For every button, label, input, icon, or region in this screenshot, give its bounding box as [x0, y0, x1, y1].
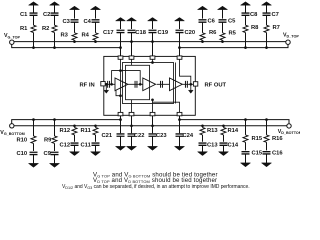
node C18/bus: [130, 40, 133, 43]
wire: [245, 154, 247, 163]
capacitor C13: [199, 143, 207, 145]
ground arrow above C2: [50, 2, 60, 5]
capacitor C3: [71, 20, 79, 22]
resistor R5: [220, 33, 225, 40]
svg-text:C3: C3: [63, 19, 71, 25]
svg-text:R12: R12: [60, 128, 71, 134]
wire: [95, 40, 97, 41]
svg-text:C10: C10: [17, 151, 28, 157]
wire: [95, 146, 97, 152]
wire: [54, 16, 56, 26]
svg-text:C21: C21: [102, 133, 113, 139]
svg-text:C11: C11: [81, 143, 92, 149]
wire pin B3 stub: [152, 100, 154, 113]
ground arrow below C12: [70, 152, 80, 156]
wire C17 down through bus corner to pin 1: [120, 33, 122, 56]
op-amp U1 package outline: [104, 56, 196, 115]
wire outer feedback loop: [123, 63, 174, 104]
wire: [95, 135, 97, 142]
node R9/bus: [53, 118, 56, 121]
capacitor C7: [263, 13, 271, 15]
capacitor C9: [51, 152, 59, 154]
svg-text:R16: R16: [272, 136, 283, 142]
capacitor C6: [199, 20, 207, 22]
wire: [202, 40, 204, 41]
resistor R11: [93, 128, 98, 135]
resistor R16: [264, 135, 269, 142]
wire: [54, 143, 56, 151]
resistor R9: [52, 136, 57, 143]
wire: [223, 146, 225, 152]
svg-text:C4: C4: [84, 19, 92, 25]
capacitor C15: [242, 152, 250, 154]
svg-text:R3: R3: [61, 32, 69, 38]
transistor amp stage 3: [170, 78, 183, 91]
ground arrow above C1: [29, 2, 39, 5]
wire: [223, 126, 225, 128]
wire: [202, 146, 204, 152]
svg-text:C7: C7: [272, 12, 279, 18]
svg-text:C20: C20: [185, 30, 196, 36]
capacitor C20: [176, 30, 184, 32]
ground arrow above C17: [116, 18, 126, 21]
node C21/bus: [119, 118, 122, 121]
wire: [245, 120, 247, 135]
node C20/bus: [178, 46, 181, 49]
resistor R7: [264, 25, 269, 32]
terminal VD_TOP: [286, 40, 290, 44]
wire: [120, 21, 122, 29]
wire pin B4 to stage3 area: [153, 102, 180, 112]
svg-text:VD_BOTTOM: VD_BOTTOM: [278, 129, 300, 135]
wire VG_TOP upper bus A: [14, 41, 286, 43]
wire: [266, 5, 268, 13]
resistor R8: [243, 25, 248, 32]
node C22/bus: [130, 124, 133, 127]
svg-text:C1: C1: [20, 12, 28, 18]
wire: [33, 155, 35, 164]
node R14/bus: [222, 124, 225, 127]
node R7/bus: [265, 46, 268, 49]
pin box top 2: [129, 56, 134, 59]
wire: [95, 126, 97, 128]
wire: [266, 33, 268, 48]
wire: [120, 137, 122, 147]
wire: [74, 22, 76, 32]
wire: [266, 142, 268, 150]
svg-text:R8: R8: [251, 25, 259, 31]
svg-text:C8: C8: [250, 12, 258, 18]
svg-text:C16: C16: [272, 150, 283, 156]
svg-text:C22: C22: [134, 133, 145, 139]
ground arrow above C4: [91, 6, 101, 9]
node R16/bus: [265, 118, 268, 121]
node R1/bus: [32, 46, 35, 49]
resistor R14: [221, 128, 226, 135]
wire: [131, 21, 133, 29]
svg-text:R2: R2: [42, 26, 49, 32]
wire: [95, 22, 97, 32]
svg-text:R11: R11: [81, 128, 92, 134]
svg-text:C12: C12: [60, 143, 71, 149]
pin box top 3: [150, 56, 155, 59]
terminal VG_TOP: [10, 40, 14, 44]
wire pin B1 down to C21: [120, 116, 122, 133]
pin box RF OUT: [193, 82, 197, 86]
resistor R3: [72, 33, 77, 40]
capacitor C4: [92, 20, 100, 22]
wire: [222, 40, 224, 41]
wire: [245, 142, 247, 150]
capacitor C10: [30, 152, 38, 154]
ground arrow below C23: [148, 146, 158, 150]
ground arrow below C15: [241, 163, 251, 167]
wire: [33, 5, 35, 13]
svg-text:C24: C24: [183, 133, 194, 139]
svg-text:RF OUT: RF OUT: [205, 83, 227, 89]
svg-text:RF IN: RF IN: [80, 83, 95, 89]
svg-text:C6: C6: [208, 18, 216, 24]
capacitor C19: [149, 30, 157, 32]
ground arrow below C22: [127, 146, 137, 150]
ground arrow below C16: [262, 163, 272, 167]
wire: [74, 146, 76, 152]
ground arrow below C14: [219, 152, 229, 156]
wire: [74, 40, 76, 41]
wire VG_TOP lower bus B left segment with terminal stub: [12, 44, 120, 47]
capacitor C18: [128, 30, 136, 32]
ground arrow above C5: [218, 6, 228, 9]
svg-text:R5: R5: [229, 30, 237, 36]
capacitor C12: [71, 143, 79, 145]
wire: [54, 33, 56, 48]
ground arrow above C18: [127, 18, 137, 21]
wire C20 down to pin 4: [179, 33, 181, 56]
wire pin B2 stub: [131, 100, 133, 113]
node R6/bus: [201, 40, 204, 43]
pin box bottom 2: [129, 112, 134, 115]
wire stage1 source jog: [116, 91, 121, 96]
wire: [131, 137, 133, 147]
wire VG_BOTTOM inner bus left segment with terminal stub: [12, 120, 120, 124]
wire: [179, 137, 181, 147]
ground arrow input shunt: [105, 84, 107, 90]
svg-text:C18: C18: [135, 30, 146, 36]
pin box bottom 4: [177, 112, 182, 115]
wire: [74, 126, 76, 128]
wire VD_BOTTOM inner bus right segment with terminal stub: [180, 120, 290, 124]
pin box RF IN: [101, 82, 105, 86]
node R2/bus: [53, 46, 56, 49]
node R11/bus: [94, 124, 97, 127]
svg-text:R9: R9: [44, 137, 52, 143]
wire: [202, 9, 204, 18]
node gate bias stage 2: [139, 83, 142, 86]
resistor R12: [72, 128, 77, 135]
wire pin B4 down to C24: [179, 116, 181, 133]
capacitor C17: [117, 30, 125, 32]
wire VD_TOP lower bus B right segment with terminal stub: [180, 44, 289, 47]
capacitor C22: [128, 134, 136, 136]
svg-text:R15: R15: [252, 136, 263, 142]
ground arrow above C20: [175, 18, 185, 21]
resistor R4: [93, 33, 98, 40]
resistor R10: [31, 136, 36, 143]
wire: [33, 33, 35, 48]
wire pin 4 to output node: [180, 59, 191, 84]
capacitor C23: [149, 134, 157, 136]
wire: [152, 137, 154, 147]
svg-text:C5: C5: [228, 19, 236, 25]
node C19/bus: [151, 40, 154, 43]
wire: [33, 143, 35, 151]
wire: [223, 135, 225, 142]
wire: [152, 21, 154, 29]
ground arrow above C19: [148, 18, 158, 21]
wire: [202, 22, 204, 32]
wire: [266, 16, 268, 26]
ground arrow below C11: [91, 152, 101, 156]
capacitor C24: [176, 134, 184, 136]
capacitor C16: [263, 152, 271, 154]
node R8/bus: [244, 46, 247, 49]
node C23/bus: [151, 124, 154, 127]
wire: [245, 5, 247, 13]
pin box bottom 3: [150, 112, 155, 115]
resistor R1: [31, 25, 36, 32]
wire outer loop inner-edge (right): [175, 63, 177, 104]
node R12/bus: [73, 124, 76, 127]
svg-text:R6: R6: [209, 30, 217, 36]
wire: [245, 16, 247, 26]
wire pin B2 down to C22: [131, 116, 133, 133]
wire: [54, 120, 56, 136]
resistor R2: [52, 25, 57, 32]
ground arrow below C13: [198, 152, 208, 156]
pin box top 4: [177, 56, 182, 59]
svg-text:C13: C13: [207, 142, 218, 148]
ground arrow below C24: [175, 146, 185, 150]
wire: [74, 9, 76, 18]
ground arrow above C3: [70, 6, 80, 9]
wire: [202, 126, 204, 128]
resistor R15: [243, 135, 248, 142]
wire inner feedback loop: [126, 65, 150, 99]
wire: [222, 9, 224, 18]
svg-text:C23: C23: [156, 133, 167, 139]
wire: [222, 22, 224, 32]
ground arrow above C6: [198, 6, 208, 9]
resistor R6: [200, 33, 205, 40]
svg-text:C19: C19: [158, 30, 169, 36]
svg-text:C9: C9: [44, 151, 52, 157]
svg-text:C14: C14: [228, 142, 239, 148]
capacitor C14: [220, 143, 228, 145]
capacitor C2: [51, 13, 59, 15]
svg-text:C17: C17: [103, 30, 114, 36]
node R15/bus: [244, 118, 247, 121]
transistor amp stage 2: [143, 78, 156, 91]
wire: [266, 154, 268, 163]
capacitor C8: [242, 13, 250, 15]
capacitor C21: [117, 134, 125, 136]
node input shunt: [105, 83, 108, 86]
wire: [74, 135, 76, 142]
pin box bottom 1: [118, 112, 123, 115]
svg-text:C2: C2: [43, 12, 50, 18]
node R10/bus: [32, 118, 35, 121]
wire: [202, 135, 204, 142]
capacitor input blocking: [108, 81, 110, 88]
wire: [54, 5, 56, 13]
wire: [33, 120, 35, 136]
node R5/bus: [221, 40, 224, 43]
resistor R13: [200, 128, 205, 135]
wire: [179, 21, 181, 29]
ground arrow above C7: [262, 2, 272, 5]
terminal VD_BOTTOM: [287, 124, 291, 128]
wire VG_BOTTOM outer bus: [14, 125, 287, 127]
svg-text:C15: C15: [252, 150, 263, 156]
node pin3/outer loop: [151, 61, 154, 64]
wire: [95, 9, 97, 18]
svg-text:VD_TOP: VD_TOP: [283, 32, 299, 38]
svg-text:R14: R14: [228, 128, 239, 134]
ground arrow above C8: [241, 2, 251, 5]
svg-text:VG_BOTTOM: VG_BOTTOM: [0, 130, 24, 136]
ground arrow output shunt: [190, 84, 192, 90]
svg-text:R13: R13: [207, 128, 218, 134]
svg-text:R1: R1: [20, 26, 28, 32]
svg-text:VD1/2 and VG3 can be separated: VD1/2 and VG3 can be separated, if desir…: [62, 184, 250, 190]
svg-text:VG_TOP: VG_TOP: [4, 33, 21, 39]
wire gate bias line stages 1-2: [112, 71, 141, 85]
ground arrow below C10: [29, 163, 39, 167]
wire: [245, 33, 247, 48]
node gate bias stage 1: [110, 83, 113, 86]
capacitor interstage 1-2: [135, 81, 137, 88]
capacitor C11: [92, 143, 100, 145]
node R4/bus: [94, 40, 97, 43]
wire: [54, 155, 56, 164]
wire internal signal path: [105, 83, 193, 85]
svg-text:R4: R4: [82, 32, 90, 38]
pin box top 1: [118, 56, 123, 59]
node R3/bus: [73, 40, 76, 43]
ground arrow below C21: [116, 146, 126, 150]
wire C19 down to pin 3: [152, 33, 154, 56]
wire: [33, 16, 35, 26]
capacitor interstage 2-3: [161, 81, 163, 88]
terminal VG_BOTTOM: [10, 124, 14, 128]
node pin B3/inner loop: [151, 98, 154, 101]
capacitor C1: [30, 13, 38, 15]
node C17/bus corner: [119, 46, 122, 49]
svg-text:R7: R7: [273, 25, 280, 31]
svg-text:R10: R10: [17, 137, 28, 143]
node output shunt: [189, 83, 192, 86]
wire pin1 to bottom pin B1 column: [120, 59, 122, 112]
wire pin B3 down to C23: [152, 116, 154, 133]
wire C18 down to pin 2: [131, 33, 133, 56]
wire pin2 stub: [131, 59, 133, 65]
ground arrow below C9: [50, 163, 60, 167]
node B1/jog: [119, 94, 122, 97]
node pin1/gate bias line: [119, 69, 122, 72]
node C24/bus: [178, 118, 181, 121]
node R13/bus: [201, 124, 204, 127]
capacitor C5: [219, 20, 227, 22]
capacitor output blocking: [185, 81, 187, 88]
wire pin3 stub: [152, 59, 154, 62]
wire: [266, 120, 268, 135]
transistor amp stage 1: [115, 78, 128, 91]
